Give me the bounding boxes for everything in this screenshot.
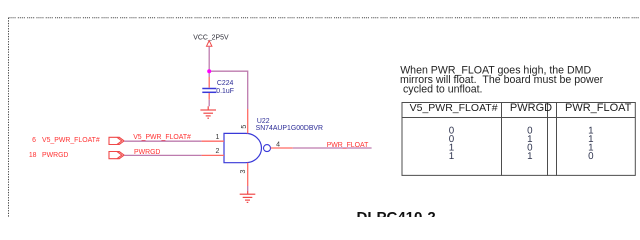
off-page ref text 6 V5_PWR_FLOAT#	[32, 137, 100, 144]
svg-text:SN74AUP1G00DBVR: SN74AUP1G00DBVR	[256, 125, 323, 132]
svg-text:1: 1	[215, 134, 219, 141]
wire V5_PWR_FLOAT# to gate	[124, 140, 202, 142]
svg-text:1: 1	[449, 151, 454, 162]
svg-text:PWR_FLOAT: PWR_FLOAT	[565, 102, 632, 114]
power symbol VCC_2P5V	[193, 34, 229, 46]
svg-text:U22: U22	[257, 118, 270, 125]
table data column V5_PWR_FLOAT#	[449, 126, 455, 162]
wire C224 to ground	[208, 100, 210, 107]
pin 1	[202, 134, 224, 141]
note text	[400, 65, 604, 96]
wire VCC vertical	[208, 47, 210, 71]
junction	[207, 69, 211, 73]
capacitor C224	[202, 77, 234, 100]
NAND gate bubble	[264, 145, 271, 152]
off-page connector V5_PWR_FLOAT#	[109, 137, 124, 144]
svg-text:VCC_2P5V: VCC_2P5V	[193, 34, 229, 41]
svg-text:DLPC410-2: DLPC410-2	[357, 209, 436, 217]
table data column PWRGD	[527, 126, 533, 162]
pin 3	[240, 163, 248, 186]
svg-text:PWRGD: PWRGD	[42, 152, 68, 159]
NAND gate U22 body	[224, 133, 262, 162]
table data column PWR_FLOAT	[588, 126, 594, 162]
svg-text:0.1uF: 0.1uF	[216, 88, 234, 95]
wire PWR_FLOAT output	[293, 147, 372, 149]
wire junction to gate pin5	[209, 71, 248, 109]
truth table grid	[402, 102, 636, 176]
svg-text:V5_PWR_FLOAT#: V5_PWR_FLOAT#	[410, 102, 498, 114]
page border (dashed frame)	[8, 18, 10, 217]
off-page connector PWRGD	[109, 152, 124, 159]
svg-text:C224: C224	[217, 80, 234, 87]
svg-text:cycled to unfloat.: cycled to unfloat.	[403, 84, 483, 96]
svg-text:0: 0	[588, 151, 594, 162]
pin 5	[241, 109, 248, 133]
svg-text:6: 6	[32, 137, 36, 144]
wire pin3 to ground	[247, 186, 249, 191]
svg-text:4: 4	[276, 141, 280, 148]
svg-text:3: 3	[240, 170, 247, 174]
svg-text:PWRGD: PWRGD	[134, 149, 160, 156]
ground (below U22)	[240, 191, 256, 202]
wire PWRGD to gate	[124, 154, 202, 156]
svg-text:5: 5	[241, 125, 248, 129]
svg-text:PWRGD: PWRGD	[510, 102, 552, 114]
svg-text:18: 18	[29, 152, 37, 159]
svg-text:V5_PWR_FLOAT#: V5_PWR_FLOAT#	[42, 137, 100, 144]
svg-text:V5_PWR_FLOAT#: V5_PWR_FLOAT#	[133, 134, 191, 141]
pin 4	[271, 141, 293, 148]
svg-text:2: 2	[215, 148, 219, 155]
svg-text:PWR_FLOAT: PWR_FLOAT	[327, 142, 369, 149]
wire junction to C224	[208, 71, 210, 77]
svg-text:1: 1	[527, 151, 532, 162]
pin 2	[202, 148, 224, 155]
ground (below C224)	[200, 106, 216, 118]
off-page ref text 18 PWRGD	[29, 152, 69, 159]
